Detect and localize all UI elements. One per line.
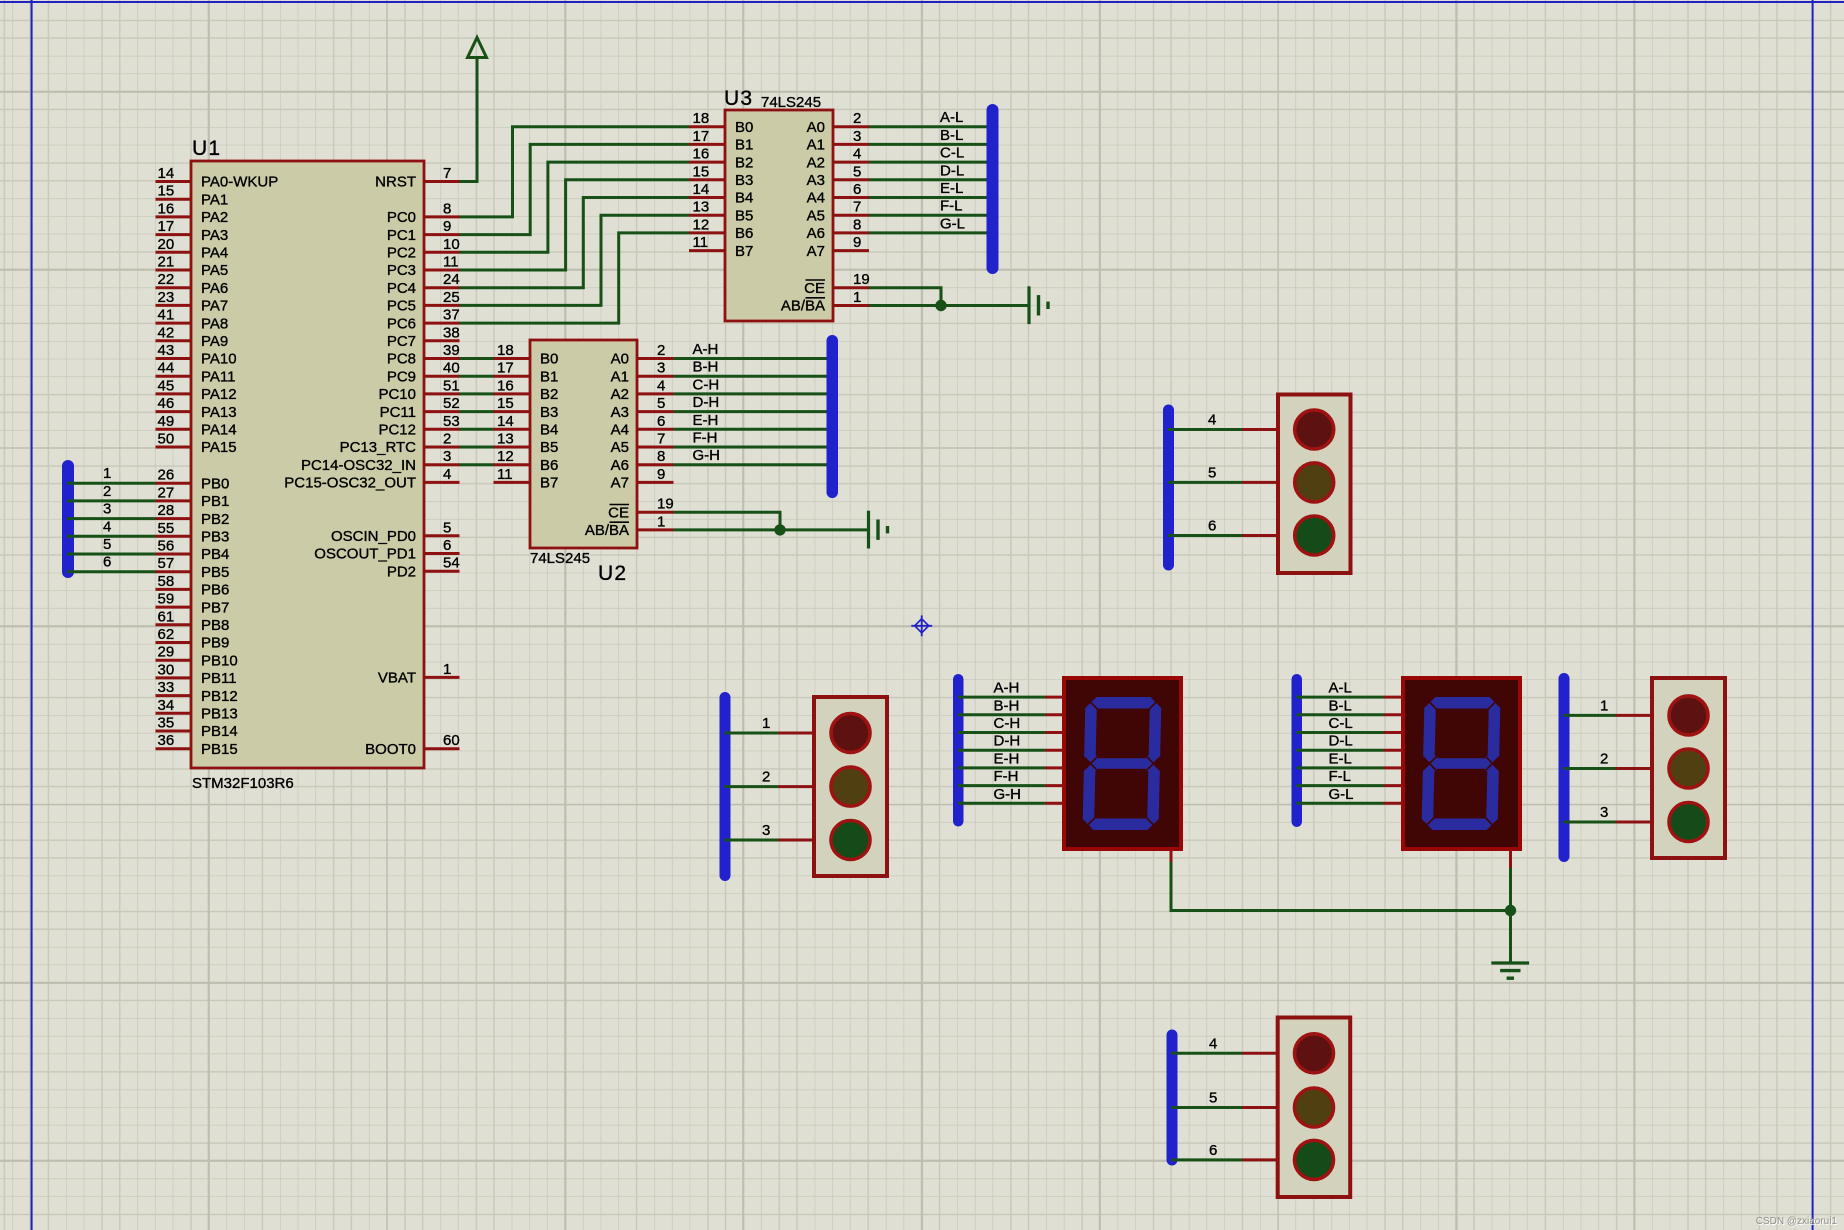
U1 pin 60 BOOT0 [365, 732, 460, 758]
U1 pin 51 PC10 [378, 377, 459, 403]
svg-text:PA9: PA9 [201, 333, 228, 350]
U1 pin 29 PB10 [156, 644, 238, 670]
svg-text:25: 25 [443, 289, 460, 306]
svg-text:A-L: A-L [940, 109, 963, 126]
svg-text:PC14-OSC32_IN: PC14-OSC32_IN [301, 457, 416, 474]
svg-text:PB9: PB9 [201, 635, 229, 652]
svg-text:5: 5 [1209, 1090, 1217, 1107]
svg-text:16: 16 [158, 200, 175, 217]
svg-text:A7: A7 [807, 243, 825, 260]
svg-text:PA12: PA12 [201, 386, 237, 403]
wire PC1 to U3 B1 [460, 144, 690, 234]
bus connector at TL3 [1559, 673, 1570, 862]
svg-text:12: 12 [497, 448, 514, 465]
traffic light TL1 [1278, 395, 1351, 574]
bus connector at TL2 [720, 692, 731, 881]
svg-text:8: 8 [657, 448, 665, 465]
svg-text:PB14: PB14 [201, 723, 238, 740]
svg-text:62: 62 [158, 626, 175, 643]
svg-text:50: 50 [158, 431, 175, 448]
svg-text:A6: A6 [807, 225, 825, 242]
svg-text:PB4: PB4 [201, 546, 229, 563]
svg-text:11: 11 [443, 254, 459, 271]
svg-text:U3: U3 [724, 87, 753, 110]
svg-text:D-H: D-H [693, 394, 720, 411]
svg-text:5: 5 [657, 395, 665, 412]
U1 pin 38 PC7 [387, 324, 460, 350]
U2 pin 9 A7 [611, 466, 674, 492]
svg-text:15: 15 [693, 163, 710, 180]
svg-text:45: 45 [158, 377, 175, 394]
svg-text:5: 5 [443, 519, 451, 536]
wire DS2 common down to junction [1509, 868, 1512, 911]
bus at DS2 [1292, 674, 1303, 827]
svg-text:D-L: D-L [940, 162, 964, 179]
svg-text:AB/BA: AB/BA [585, 522, 629, 539]
svg-text:PC0: PC0 [387, 209, 416, 226]
svg-text:52: 52 [443, 395, 460, 412]
U1 pin 11 PC3 [387, 254, 460, 280]
U1 pin 28 PB2 [156, 502, 230, 528]
svg-text:2: 2 [443, 431, 451, 448]
wire U2 CE to ground net [674, 512, 781, 530]
svg-text:6: 6 [1208, 518, 1216, 535]
svg-text:PB10: PB10 [201, 652, 238, 669]
svg-text:2: 2 [657, 342, 665, 359]
U1 pin 54 PD2 [387, 555, 460, 581]
svg-text:4: 4 [1208, 412, 1216, 429]
svg-text:PC10: PC10 [378, 386, 416, 403]
svg-text:PC12: PC12 [378, 422, 416, 439]
U1 pin 7 NRST [375, 165, 459, 191]
svg-text:18: 18 [497, 342, 514, 359]
svg-text:2: 2 [103, 483, 111, 500]
DS2 common pin stub [1509, 849, 1512, 868]
svg-text:PA8: PA8 [201, 315, 228, 332]
junction at U3 CE/AB-BA [935, 300, 946, 311]
U3 pin 8 A6 [807, 216, 869, 242]
svg-text:U1: U1 [192, 137, 221, 160]
svg-text:PA3: PA3 [201, 227, 228, 244]
svg-text:6: 6 [443, 537, 451, 554]
wire bus to DS1 pin, net G-H [958, 786, 1064, 804]
wire PC10 to U2 B2 [460, 392, 494, 395]
U3 pin 1 AB/BA [781, 289, 869, 315]
svg-text:PC13_RTC: PC13_RTC [340, 439, 417, 456]
svg-text:A3: A3 [807, 172, 825, 189]
U3 pin 3 A1 [807, 128, 869, 154]
wire PC9 to U2 B1 [460, 375, 494, 378]
svg-text:7: 7 [853, 199, 861, 216]
wire U2 A0 to bus, net A-H [674, 341, 835, 359]
wire PC13 to U2 B5 [460, 446, 494, 449]
U1 pin 15 PA1 [156, 183, 229, 209]
svg-text:15: 15 [497, 395, 514, 412]
svg-text:G-H: G-H [994, 786, 1022, 803]
svg-text:42: 42 [158, 324, 175, 341]
svg-text:B7: B7 [735, 243, 753, 260]
svg-text:17: 17 [497, 360, 514, 377]
wire U2 A3 to bus, net D-H [674, 394, 835, 412]
U1 pin 20 PA4 [156, 236, 229, 262]
svg-text:VBAT: VBAT [378, 670, 416, 687]
U3 pin 14 B4 [689, 181, 753, 207]
U1 pin 41 PA8 [156, 307, 229, 333]
wire bus pin 6 to TL4 [1172, 1142, 1278, 1160]
svg-text:59: 59 [158, 591, 175, 608]
wire bus pin 4 to PB3 [67, 518, 156, 536]
svg-text:A-L: A-L [1329, 680, 1352, 697]
U1 pin 62 PB9 [156, 626, 230, 652]
svg-text:A-H: A-H [994, 680, 1020, 697]
U3 pin 2 A0 [807, 110, 869, 136]
U1 pin 35 PB14 [156, 715, 238, 741]
svg-text:11: 11 [497, 466, 513, 483]
svg-text:PA15: PA15 [201, 439, 237, 456]
U2 pin 15 B3 [494, 395, 559, 421]
U3 pin 5 A3 [807, 163, 869, 189]
svg-text:3: 3 [762, 822, 770, 839]
svg-text:PB3: PB3 [201, 529, 229, 546]
bus at U2 A side [827, 335, 839, 498]
U3 pin 12 B6 [689, 216, 753, 242]
wire DS1 common to junction [1171, 862, 1511, 911]
svg-text:B-H: B-H [994, 697, 1020, 714]
svg-text:6: 6 [103, 554, 111, 571]
svg-text:PA2: PA2 [201, 209, 228, 226]
U1 pin 34 PB13 [156, 697, 238, 723]
svg-text:3: 3 [1600, 804, 1608, 821]
traffic light TL4 [1278, 1018, 1351, 1198]
U1 pin 27 PB1 [156, 484, 230, 510]
wire bus pin 1 to TL2 [725, 715, 815, 733]
wire U3 A2 to bus, net C-L [869, 145, 994, 163]
U1 pin 4 PC15-OSC32_OUT [284, 466, 459, 492]
wire bus to DS2 pin, net C-L [1297, 715, 1404, 733]
wire U3 CE to ground net [869, 288, 941, 306]
wire bus to DS2 pin, net D-L [1297, 733, 1404, 751]
svg-text:A3: A3 [611, 404, 629, 421]
svg-text:B5: B5 [735, 207, 753, 224]
svg-text:6: 6 [1209, 1142, 1217, 1159]
svg-text:5: 5 [103, 536, 111, 553]
svg-text:B0: B0 [735, 119, 753, 136]
svg-text:1: 1 [443, 661, 451, 678]
wire bus pin 3 to PB2 [67, 501, 156, 519]
svg-text:A2: A2 [611, 386, 629, 403]
7-segment display DS2 (L digit) [1403, 678, 1520, 849]
svg-text:U2: U2 [598, 562, 627, 585]
svg-text:53: 53 [443, 413, 460, 430]
svg-text:OSCOUT_PD1: OSCOUT_PD1 [314, 546, 416, 563]
svg-text:OSCIN_PD0: OSCIN_PD0 [331, 528, 416, 545]
U1 pin 58 PB6 [156, 573, 230, 599]
svg-text:B2: B2 [540, 386, 558, 403]
U3 pin 15 B3 [689, 163, 753, 189]
U1 pin 30 PB11 [156, 661, 237, 687]
svg-text:A1: A1 [611, 368, 629, 385]
U3 pin 16 B2 [689, 146, 753, 172]
wire PC11 to U2 B3 [460, 410, 494, 413]
U3 pin 18 B0 [689, 110, 753, 136]
svg-text:B7: B7 [540, 475, 558, 492]
svg-text:B4: B4 [540, 422, 558, 439]
junction of display commons [1505, 905, 1516, 916]
wire PC12 to U2 B4 [460, 428, 494, 431]
svg-text:60: 60 [443, 732, 460, 749]
svg-text:58: 58 [158, 573, 175, 590]
U1 pin 16 PA2 [156, 200, 229, 226]
svg-text:A4: A4 [611, 422, 629, 439]
wire PC14 to U2 B6 [460, 463, 494, 466]
svg-text:F-L: F-L [1329, 768, 1352, 785]
svg-text:38: 38 [443, 324, 460, 341]
svg-text:B5: B5 [540, 439, 558, 456]
svg-text:3: 3 [853, 128, 861, 145]
traffic light TL3 [1652, 678, 1725, 858]
svg-text:D-L: D-L [1329, 733, 1353, 750]
svg-text:30: 30 [158, 661, 175, 678]
power symbol (arrow) on NRST net [468, 38, 487, 58]
svg-text:13: 13 [497, 431, 514, 448]
svg-text:PC5: PC5 [387, 298, 416, 315]
U3 pin 6 A4 [807, 181, 869, 207]
svg-text:17: 17 [693, 128, 710, 145]
svg-text:28: 28 [158, 502, 175, 519]
svg-text:43: 43 [158, 342, 175, 359]
U2 pin 4 A2 [611, 377, 674, 403]
wire U3 A6 to bus, net G-L [869, 215, 994, 233]
svg-text:16: 16 [497, 377, 514, 394]
wire bus to DS1 pin, net C-H [958, 715, 1064, 733]
svg-text:PB0: PB0 [201, 475, 229, 492]
svg-text:19: 19 [657, 496, 674, 513]
svg-text:36: 36 [158, 732, 175, 749]
svg-text:46: 46 [158, 395, 175, 412]
U1 pin 24 PC4 [387, 271, 460, 297]
svg-text:B3: B3 [540, 404, 558, 421]
U1 pin 57 PB5 [156, 555, 230, 581]
U2 pin 2 A0 [611, 342, 674, 368]
svg-text:19: 19 [853, 271, 870, 288]
svg-text:B0: B0 [540, 351, 558, 368]
svg-text:9: 9 [443, 218, 451, 235]
bus connector at PB0-PB5 [62, 460, 74, 578]
U1 pin 23 PA7 [156, 289, 229, 315]
svg-text:STM32F103R6: STM32F103R6 [192, 775, 294, 792]
U1 pin 6 OSCOUT_PD1 [314, 537, 459, 563]
wire bus pin 6 to PB5 [67, 554, 156, 572]
wire U2 A4 to bus, net E-H [674, 412, 835, 430]
svg-text:E-L: E-L [1329, 750, 1352, 767]
svg-text:A4: A4 [807, 190, 825, 207]
bus connector at TL1 [1163, 405, 1174, 571]
U1 pin 2 PC13_RTC [340, 431, 460, 457]
svg-text:B1: B1 [735, 137, 753, 154]
svg-text:AB/BA: AB/BA [781, 298, 825, 315]
svg-text:26: 26 [158, 467, 175, 484]
wire bus to DS1 pin, net D-H [958, 733, 1064, 751]
svg-text:21: 21 [158, 254, 175, 271]
svg-text:14: 14 [693, 181, 710, 198]
wire bus to DS2 pin, net G-L [1297, 786, 1404, 804]
U2 pin 18 B0 [494, 342, 559, 368]
wire bus pin 2 to TL3 [1564, 751, 1653, 769]
svg-text:2: 2 [853, 110, 861, 127]
svg-text:C-H: C-H [693, 376, 720, 393]
svg-text:9: 9 [853, 234, 861, 251]
svg-text:5: 5 [1208, 464, 1216, 481]
svg-text:PB1: PB1 [201, 493, 229, 510]
U1 pin 14 PA0-WKUP [156, 165, 279, 191]
wire PC5 to U3 B5 [460, 215, 690, 305]
wire bus pin 3 to TL3 [1564, 804, 1653, 822]
svg-text:A5: A5 [611, 439, 629, 456]
svg-text:B6: B6 [735, 225, 753, 242]
svg-text:A2: A2 [807, 154, 825, 171]
U3 pin 4 A2 [807, 146, 869, 172]
svg-text:PC2: PC2 [387, 245, 416, 262]
buffer U3 74LS245 [689, 87, 870, 321]
svg-text:PC3: PC3 [387, 262, 416, 279]
wire bus to DS2 pin, net B-L [1297, 697, 1404, 715]
wire bus to DS2 pin, net A-L [1297, 680, 1404, 698]
U2 pin 5 A3 [611, 395, 674, 421]
U1 pin 42 PA9 [156, 324, 229, 350]
svg-text:F-H: F-H [994, 768, 1019, 785]
U1 pin 3 PC14-OSC32_IN [301, 448, 460, 474]
svg-text:54: 54 [443, 555, 460, 572]
wire U3 A3 to bus, net D-L [869, 162, 994, 180]
wire bus pin 4 to TL1 [1168, 412, 1278, 430]
svg-text:9: 9 [657, 466, 665, 483]
U2 pin 13 B5 [494, 431, 559, 457]
svg-text:37: 37 [443, 307, 460, 324]
svg-text:6: 6 [657, 413, 665, 430]
svg-text:4: 4 [103, 518, 111, 535]
svg-text:PA14: PA14 [201, 422, 237, 439]
U1 pin 52 PC11 [380, 395, 460, 421]
svg-text:F-H: F-H [693, 430, 718, 447]
svg-text:1: 1 [762, 715, 770, 732]
U2 pin 11 B7 [494, 466, 559, 492]
wire PC6 to U3 B6 [460, 233, 690, 323]
wire PC4 to U3 B4 [460, 198, 690, 288]
svg-text:PC7: PC7 [387, 333, 416, 350]
wire bus pin 3 to TL2 [725, 822, 815, 840]
svg-text:A7: A7 [611, 475, 629, 492]
U1 pin 56 PB4 [156, 538, 230, 564]
wire U2 AB/BA to ground [674, 528, 869, 531]
wire U3 A0 to bus, net A-L [869, 109, 994, 127]
svg-text:10: 10 [443, 236, 460, 253]
wire bus pin 5 to PB4 [67, 536, 156, 554]
U3 pin 11 B7 [689, 234, 753, 260]
svg-text:2: 2 [762, 769, 770, 786]
svg-text:PB13: PB13 [201, 706, 238, 723]
svg-text:11: 11 [693, 234, 709, 251]
svg-text:20: 20 [158, 236, 175, 253]
wire PC0 to U3 B0 [460, 127, 690, 217]
svg-text:61: 61 [158, 608, 175, 625]
svg-text:PC4: PC4 [387, 280, 416, 297]
U1 pin 5 OSCIN_PD0 [331, 519, 460, 545]
svg-text:4: 4 [657, 377, 665, 394]
svg-text:40: 40 [443, 360, 460, 377]
svg-text:18: 18 [693, 110, 710, 127]
svg-text:41: 41 [158, 307, 175, 324]
svg-text:8: 8 [443, 200, 451, 217]
svg-text:E-H: E-H [994, 750, 1020, 767]
wire bus pin 6 to TL1 [1168, 518, 1278, 536]
svg-text:A6: A6 [611, 457, 629, 474]
U1 pin 40 PC9 [387, 360, 460, 386]
svg-text:G-L: G-L [1329, 786, 1354, 803]
svg-text:PC9: PC9 [387, 368, 416, 385]
wire bus pin 4 to TL4 [1172, 1035, 1278, 1053]
U1 pin 49 PA14 [156, 413, 237, 439]
wire U3 A5 to bus, net F-L [869, 198, 994, 216]
U2 pin 19 CE [608, 496, 674, 522]
svg-text:PC11: PC11 [380, 404, 416, 421]
svg-text:7: 7 [443, 165, 451, 182]
ground symbol below displays [1491, 963, 1529, 978]
U1 pin 17 PA3 [156, 218, 229, 244]
svg-text:74LS245: 74LS245 [761, 94, 821, 111]
U1 pin 43 PA10 [156, 342, 237, 368]
wire bus pin 2 to PB1 [67, 483, 156, 501]
svg-text:39: 39 [443, 342, 460, 359]
svg-text:B2: B2 [735, 154, 753, 171]
svg-text:PC8: PC8 [387, 351, 416, 368]
wire bus to DS1 pin, net A-H [958, 680, 1064, 698]
U1 pin 26 PB0 [156, 467, 230, 493]
svg-text:PB8: PB8 [201, 617, 229, 634]
svg-text:PA13: PA13 [201, 404, 237, 421]
svg-text:G-H: G-H [693, 447, 721, 464]
wire bus to DS1 pin, net E-H [958, 750, 1064, 768]
wire NRST to power symbol [460, 58, 478, 182]
svg-text:27: 27 [158, 484, 175, 501]
svg-text:22: 22 [158, 271, 175, 288]
traffic light TL2 [814, 697, 887, 876]
U3 pin 7 A5 [807, 199, 869, 225]
bus at U3 A side [987, 104, 999, 274]
U1 pin 44 PA11 [156, 360, 236, 386]
svg-text:5: 5 [853, 163, 861, 180]
wire U2 A1 to bus, net B-H [674, 359, 835, 377]
svg-text:16: 16 [693, 146, 710, 163]
bus at DS1 [953, 674, 964, 827]
wire U2 A2 to bus, net C-H [674, 376, 835, 394]
svg-text:PB2: PB2 [201, 511, 229, 528]
svg-text:29: 29 [158, 644, 175, 661]
svg-text:35: 35 [158, 715, 175, 732]
svg-text:1: 1 [103, 465, 111, 482]
svg-text:17: 17 [158, 218, 175, 235]
svg-text:13: 13 [693, 199, 710, 216]
U1 pin 25 PC5 [387, 289, 460, 315]
wire PC2 to U3 B2 [460, 162, 690, 252]
svg-text:PB15: PB15 [201, 741, 238, 758]
svg-text:PA4: PA4 [201, 245, 228, 262]
U2 pin 14 B4 [494, 413, 559, 439]
svg-text:14: 14 [158, 165, 175, 182]
svg-text:B-L: B-L [1329, 697, 1352, 714]
U1 pin 33 PB12 [156, 679, 238, 705]
svg-text:F-L: F-L [940, 198, 963, 215]
svg-text:A-H: A-H [693, 341, 719, 358]
